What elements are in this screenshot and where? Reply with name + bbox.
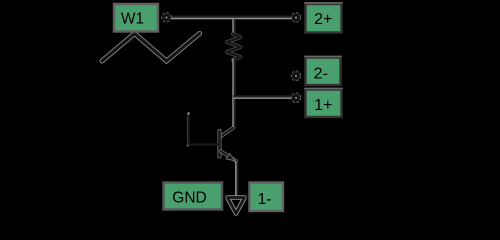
scope box 1+ [304,88,342,117]
terminal at 2- [292,71,301,80]
wire W1 terminal to 2+ terminal [171,17,292,19]
wire tap to 1+ terminal [233,96,292,98]
terminal at 2+ [292,13,301,22]
resistor [227,34,240,60]
scope box 2- [304,56,341,85]
wire emitter to ground [236,161,238,196]
svg-text:W1: W1 [121,10,144,27]
scope box 1- [250,183,284,212]
transistor Q1 collector lead [221,128,234,137]
waveform icon (triangle wave under W1) [102,34,200,62]
wire resistor to transistor collector [233,59,235,129]
terminal at W1 output [162,13,171,22]
GND box [164,183,223,210]
ground symbol [228,198,245,214]
wire junction down to resistor [233,19,235,35]
svg-text:1+: 1+ [314,97,332,114]
svg-text:1-: 1- [258,191,272,208]
terminal at 1+ [292,93,301,102]
base wire to dangling node [187,112,218,146]
svg-text:2-: 2- [314,65,328,82]
svg-text:GND: GND [172,189,206,206]
scope box 2+ [304,3,342,33]
transistor Q1 base bar [218,131,222,157]
transistor Q1 emitter arrowhead [226,154,235,161]
generator box W1 [114,4,158,32]
svg-text:2+: 2+ [314,11,332,28]
transistor Q1 emitter lead [221,151,237,161]
